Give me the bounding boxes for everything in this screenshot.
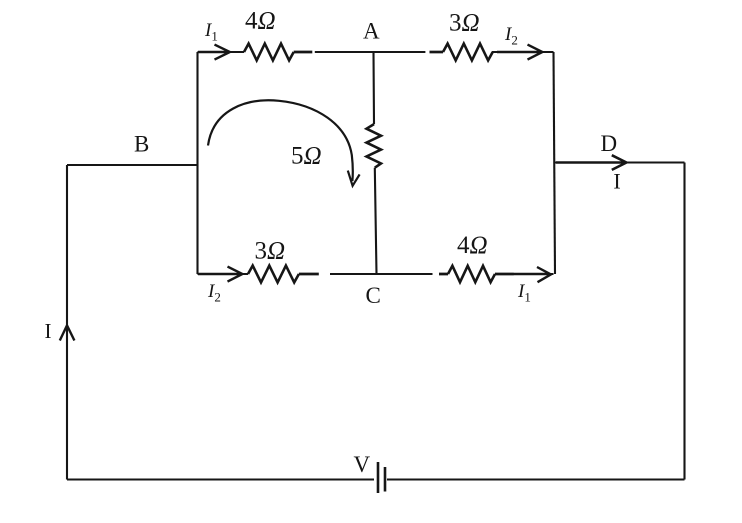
current arrow I (left, upward) — [60, 325, 75, 340]
wire: bridge left vertical (B node column) — [196, 52, 198, 274]
svg-text:I2: I2 — [504, 24, 518, 48]
resistor 3Ω (top-right) — [443, 44, 493, 61]
wire: D horizontal lead — [555, 161, 685, 163]
wire: B horizontal lead — [67, 164, 198, 166]
resistor 3Ω (bottom-left) — [248, 266, 299, 283]
resistor 4Ω (top-left) — [244, 44, 294, 61]
svg-text:4Ω: 4Ω — [457, 232, 488, 259]
svg-text:D: D — [601, 131, 618, 156]
battery V (two plates) — [378, 462, 385, 493]
wire: middle branch A to C — [374, 52, 377, 274]
wire: right outer vertical — [683, 163, 685, 480]
svg-text:I1: I1 — [517, 281, 531, 305]
wire: bottom-right branch C to D — [495, 273, 554, 275]
wire: top-right branch A to D — [374, 51, 554, 53]
wire: bridge right vertical (D node column) — [554, 52, 556, 274]
svg-text:I1: I1 — [204, 20, 218, 44]
resistor 5Ω (middle, vertical) — [367, 124, 382, 168]
svg-text:I: I — [45, 319, 52, 343]
current arrow I1 (bottom-right) — [513, 267, 551, 282]
svg-text:I: I — [613, 169, 620, 194]
wire: bottom lead (right of battery) — [387, 478, 685, 480]
svg-text:A: A — [363, 19, 380, 44]
current arrow I1 (top-left) — [198, 45, 230, 60]
current arrow I at D — [556, 155, 626, 170]
svg-text:3Ω: 3Ω — [449, 10, 480, 37]
wire: left outer vertical — [66, 165, 68, 480]
svg-text:5Ω: 5Ω — [291, 143, 322, 170]
current arrow I2 (bottom-left) — [198, 267, 242, 282]
svg-text:4Ω: 4Ω — [245, 8, 276, 35]
svg-text:V: V — [354, 452, 371, 477]
wire: top-left branch B to A — [198, 51, 374, 53]
wire: bottom lead (left of battery) — [67, 478, 374, 480]
svg-text:I2: I2 — [207, 281, 221, 305]
svg-text:C: C — [366, 283, 381, 308]
loop direction curved arrow — [208, 100, 353, 181]
resistor 4Ω (bottom-right) — [448, 266, 495, 282]
svg-text:3Ω: 3Ω — [255, 238, 286, 265]
svg-text:B: B — [134, 132, 149, 157]
current arrow I2 (top-right) — [497, 45, 542, 60]
wire: bottom-left branch B to C — [198, 273, 433, 275]
